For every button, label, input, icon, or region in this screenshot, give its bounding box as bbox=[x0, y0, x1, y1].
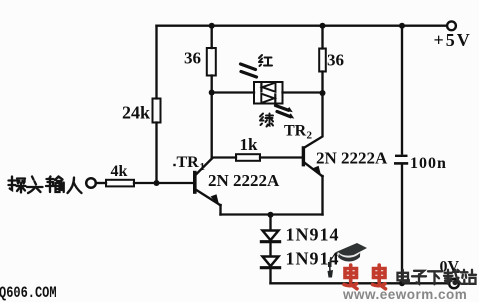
svg-text:+5V: +5V bbox=[434, 30, 472, 50]
svg-text:4k: 4k bbox=[111, 163, 128, 180]
svg-text:36: 36 bbox=[327, 51, 344, 70]
svg-text:2N 2222A: 2N 2222A bbox=[208, 171, 280, 190]
svg-text:TR: TR bbox=[177, 154, 200, 171]
svg-text:24k: 24k bbox=[122, 103, 150, 123]
svg-text:Q606.COM: Q606.COM bbox=[0, 285, 57, 302]
svg-text:36: 36 bbox=[184, 49, 201, 68]
svg-text:TR: TR bbox=[284, 123, 307, 140]
svg-text:100n: 100n bbox=[410, 155, 447, 172]
svg-text:www.eeworm.com: www.eeworm.com bbox=[342, 287, 467, 302]
svg-text:1N914: 1N914 bbox=[286, 225, 340, 245]
svg-text:2: 2 bbox=[307, 130, 313, 142]
svg-text:1: 1 bbox=[200, 161, 206, 173]
svg-text:2N 2222A: 2N 2222A bbox=[316, 149, 388, 168]
svg-text:1k: 1k bbox=[240, 135, 259, 154]
